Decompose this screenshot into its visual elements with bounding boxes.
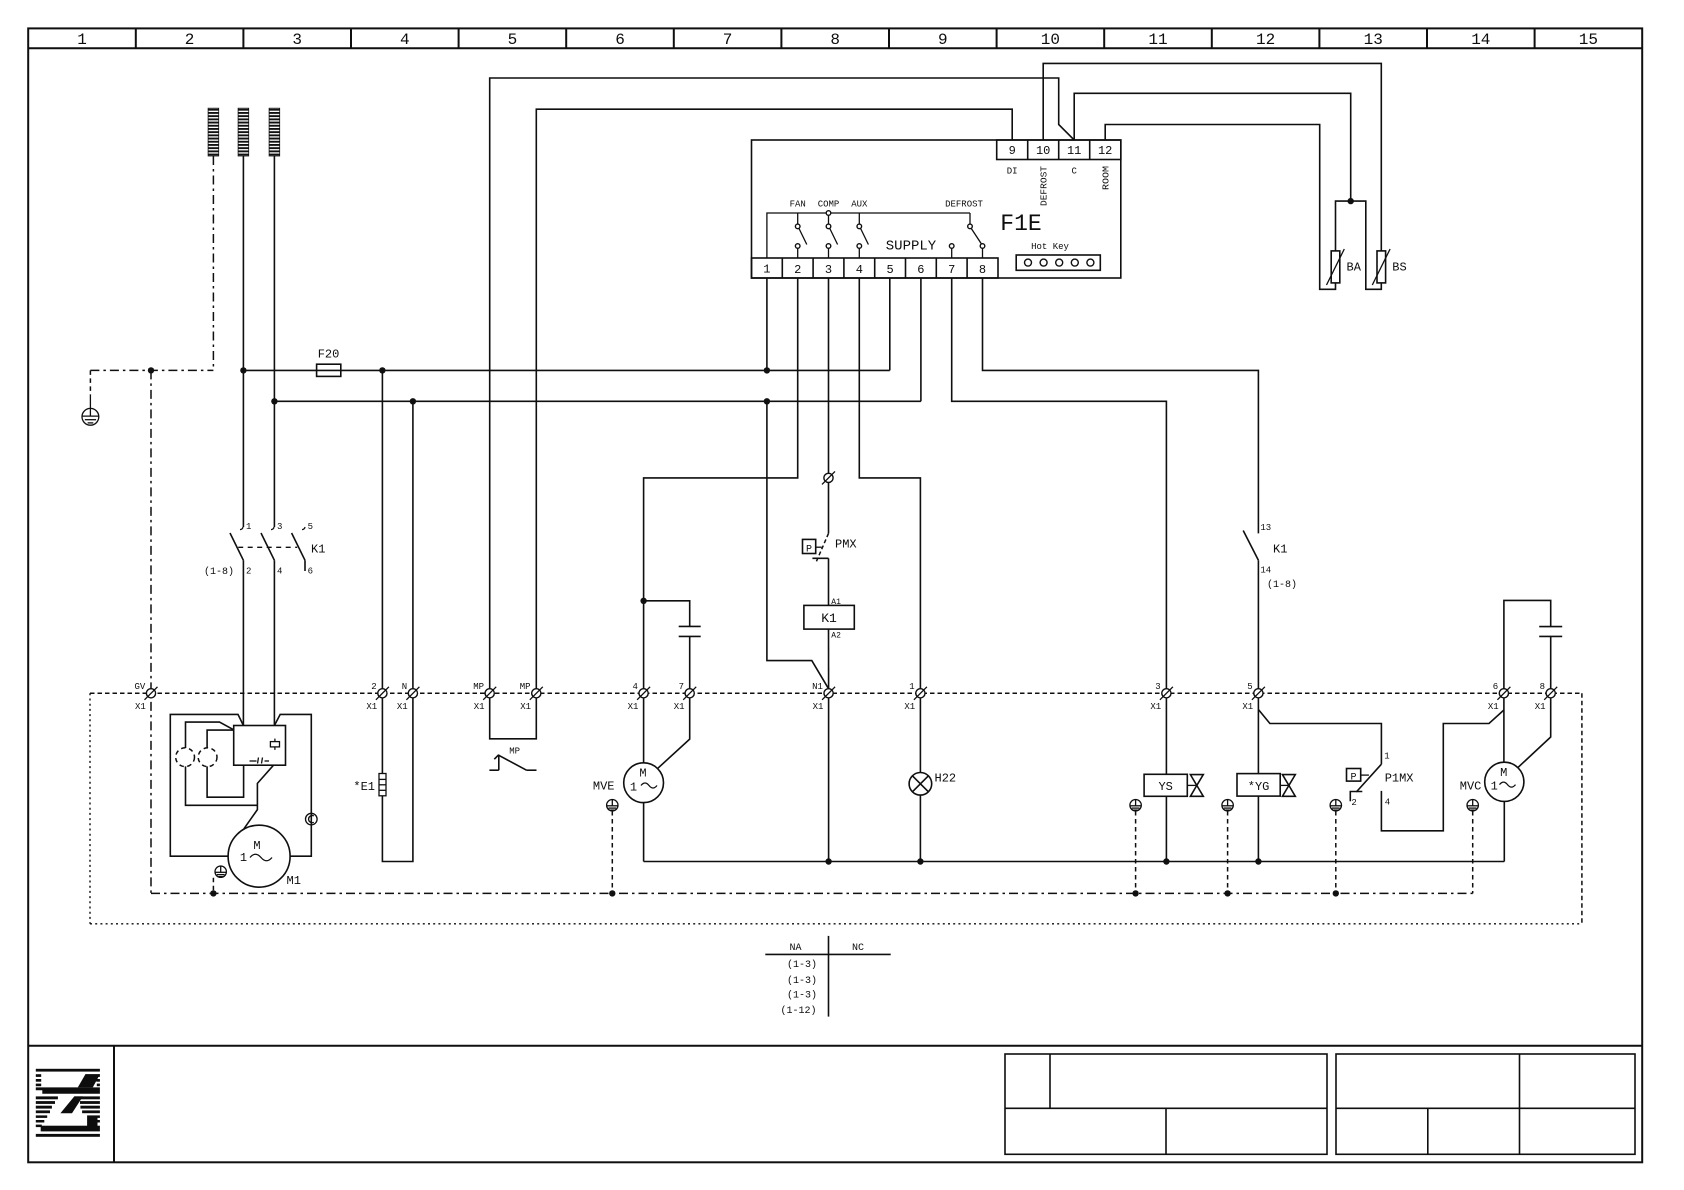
wire P1MX contact 4 to 6/X1 bbox=[1381, 710, 1504, 831]
svg-text:X1: X1 bbox=[135, 702, 146, 712]
svg-text:4: 4 bbox=[856, 263, 863, 277]
wire PE drop dash-dot bbox=[212, 156, 214, 370]
svg-text:NC: NC bbox=[852, 943, 864, 954]
wire capacitor to 8/X1 bbox=[1550, 636, 1552, 688]
svg-text:A1: A1 bbox=[831, 598, 841, 607]
svg-text:9: 9 bbox=[1009, 144, 1016, 158]
svg-text:1: 1 bbox=[1384, 752, 1389, 762]
wire YS ground dashed bbox=[1135, 811, 1137, 893]
thermal cutout MP loop below terminals bbox=[490, 698, 537, 739]
wire YS to return bbox=[1165, 796, 1167, 861]
wire terminal 10 DEFROST probe to BS top bbox=[1043, 63, 1381, 251]
motor MVE bbox=[593, 763, 664, 803]
svg-text:COMP: COMP bbox=[818, 200, 840, 210]
wire M1 ground dashed bbox=[212, 878, 214, 894]
svg-text:NA: NA bbox=[789, 943, 801, 954]
AUX relay switch bbox=[851, 200, 868, 259]
terminal line X1 dashed bbox=[90, 692, 1582, 694]
svg-text:X1: X1 bbox=[674, 702, 685, 712]
coil K1 bbox=[804, 598, 854, 641]
svg-text:X1: X1 bbox=[520, 702, 531, 712]
solenoid valve YG bbox=[1237, 774, 1295, 797]
svg-text:5: 5 bbox=[1247, 682, 1252, 692]
node L bus at L2 column bbox=[240, 367, 246, 373]
svg-text:H22: H22 bbox=[935, 772, 957, 786]
node L bus at terminal 1 bbox=[764, 367, 770, 373]
wire PE vertical to GV dash-dot bbox=[150, 370, 152, 893]
connector circle on PMX line bbox=[822, 471, 835, 484]
enclosure dotted bottom bbox=[90, 923, 1582, 925]
svg-text:X1: X1 bbox=[1488, 702, 1499, 712]
ground symbol P1MX bbox=[1330, 800, 1341, 811]
svg-text:M: M bbox=[253, 839, 260, 853]
svg-text:1: 1 bbox=[630, 781, 637, 795]
node MVE PE bbox=[609, 890, 615, 896]
svg-text:(1-8): (1-8) bbox=[1267, 579, 1297, 591]
right title table bbox=[1336, 1054, 1635, 1154]
svg-text:A2: A2 bbox=[831, 632, 841, 641]
ruler tick lines bbox=[136, 28, 1535, 48]
connector pin dashed circle right bbox=[198, 748, 217, 767]
svg-text:P: P bbox=[1350, 773, 1356, 784]
COMP relay switch bbox=[818, 200, 840, 259]
wire left pin to junction bbox=[186, 766, 258, 805]
wire right pin to relay bottom bbox=[207, 765, 244, 797]
svg-text:4: 4 bbox=[632, 682, 637, 692]
supply terminal bar L bbox=[238, 108, 249, 156]
svg-text:*E1: *E1 bbox=[353, 780, 375, 794]
svg-text:K1: K1 bbox=[1273, 543, 1287, 557]
svg-text:2: 2 bbox=[794, 263, 801, 277]
wire capacitor to 7/X1 bbox=[689, 636, 691, 688]
wire N bus bbox=[274, 400, 921, 402]
wire 6/X1 to MVC motor bbox=[1503, 698, 1505, 762]
ground symbol YG bbox=[1222, 800, 1233, 811]
terminal MP/X1 right bbox=[520, 682, 543, 712]
terminal 1/X1 bbox=[904, 682, 927, 712]
DEFROST relay switch bbox=[945, 200, 985, 259]
svg-text:2: 2 bbox=[185, 31, 195, 49]
wire YG to return bbox=[1257, 796, 1259, 861]
wire net C right branch to sensors junction bbox=[1074, 93, 1351, 201]
svg-text:4: 4 bbox=[277, 567, 282, 577]
wire 5/X1 to YG bbox=[1257, 698, 1259, 774]
wire terminal 4 AUX to 1/X1 bbox=[859, 278, 920, 689]
TOPWIRES bbox=[490, 63, 1407, 688]
svg-text:YS: YS bbox=[1158, 780, 1172, 794]
svg-text:10: 10 bbox=[1036, 144, 1050, 158]
node M1 PE bbox=[210, 890, 216, 896]
left title table bbox=[1005, 1054, 1327, 1154]
contactor K1 pole 5-6 unused bbox=[292, 522, 313, 577]
svg-text:12: 12 bbox=[1256, 31, 1275, 49]
wire terminal 5 to L bus bbox=[889, 278, 891, 370]
svg-text:7: 7 bbox=[948, 263, 955, 277]
node YG on return bbox=[1255, 858, 1261, 864]
svg-text:X1: X1 bbox=[474, 702, 485, 712]
svg-text:7: 7 bbox=[723, 31, 733, 49]
node L bus at E1 column bbox=[379, 367, 385, 373]
wire PE horizontal dash-dot bbox=[90, 369, 213, 371]
node P1MX PE bbox=[1333, 890, 1339, 896]
svg-text:3: 3 bbox=[277, 522, 282, 532]
supply terminal bar PE bbox=[208, 108, 219, 156]
wire 6/X1 up to capacitor bbox=[1504, 600, 1551, 688]
COMPRESSOR bbox=[170, 714, 317, 896]
terminal strip 9-12 bbox=[997, 140, 1121, 160]
terminal N1/X1 bbox=[812, 682, 835, 712]
wire K1 14 to 5/X1 bbox=[1257, 560, 1259, 689]
Hot Key connector box bbox=[1016, 255, 1100, 270]
svg-text:*YG: *YG bbox=[1248, 780, 1270, 794]
terminal 6/X1 bbox=[1488, 682, 1511, 712]
thermistor BA bbox=[1327, 249, 1362, 285]
svg-text:(1-12): (1-12) bbox=[780, 1005, 816, 1017]
CONTROLLER bbox=[752, 140, 1121, 278]
wire 8/X1 to MVC diagonal bbox=[1518, 698, 1551, 768]
svg-text:X1: X1 bbox=[813, 702, 824, 712]
svg-text:6: 6 bbox=[308, 567, 313, 577]
wire MVE bottom bbox=[643, 803, 645, 862]
svg-text:M: M bbox=[1500, 766, 1507, 780]
wire terminal 9 DI to MP column bbox=[536, 109, 1012, 689]
svg-text:GV: GV bbox=[134, 682, 145, 692]
ground symbol MVC bbox=[1467, 800, 1478, 811]
enclosure dotted left side bbox=[89, 693, 91, 924]
svg-text:(1-3): (1-3) bbox=[787, 989, 817, 1001]
svg-text:5: 5 bbox=[308, 522, 313, 532]
motor M1 bbox=[228, 825, 301, 888]
wire 1/X1 to H22 bbox=[919, 698, 921, 773]
terminal strip 1-8 bbox=[752, 258, 999, 278]
svg-text:13: 13 bbox=[1364, 31, 1383, 49]
XTERMS bbox=[90, 682, 1582, 924]
lamp H22 bbox=[909, 773, 932, 796]
controller F1E box bbox=[752, 140, 1121, 278]
thermal protector circle on right leg bbox=[306, 813, 318, 825]
PE bottom dash-dot line bbox=[151, 892, 1473, 894]
wire terminal 2 FAN to 4/X1 bbox=[644, 278, 798, 689]
wire PE to earth bbox=[89, 370, 91, 395]
supply terminal bar N bbox=[269, 108, 280, 156]
pressure switch P1MX bbox=[1347, 752, 1414, 808]
heater E1 bbox=[353, 698, 413, 862]
svg-text:BS: BS bbox=[1392, 261, 1406, 275]
wire N column from N bus to N/X1 bbox=[412, 401, 414, 689]
thermal cutout MP contact symbol bbox=[489, 755, 536, 771]
svg-text:N1: N1 bbox=[812, 682, 823, 692]
svg-text:P: P bbox=[806, 545, 812, 556]
wire N1/X1 to return bbox=[828, 698, 830, 862]
svg-text:X1: X1 bbox=[397, 702, 408, 712]
svg-text:6: 6 bbox=[1493, 682, 1498, 692]
svg-text:(1-3): (1-3) bbox=[787, 959, 817, 971]
svg-text:SUPPLY: SUPPLY bbox=[886, 239, 937, 255]
svg-text:8: 8 bbox=[830, 31, 840, 49]
svg-text:7: 7 bbox=[679, 682, 684, 692]
NA NC cross table bbox=[765, 936, 890, 1017]
solenoid valve YS bbox=[1144, 774, 1203, 796]
node N bus at L3 column bbox=[271, 398, 277, 404]
svg-text:C: C bbox=[1071, 167, 1077, 177]
fuse F20 bbox=[317, 348, 341, 377]
svg-text:15: 15 bbox=[1579, 31, 1598, 49]
svg-text:F20: F20 bbox=[318, 348, 340, 362]
RIGHT bbox=[1130, 523, 1562, 897]
contactor K1 pole 3-4 bbox=[261, 522, 282, 726]
ground earth symbol bbox=[82, 408, 99, 425]
svg-text:M: M bbox=[639, 767, 646, 781]
BUSES bbox=[240, 278, 1258, 689]
svg-text:MP: MP bbox=[520, 682, 531, 692]
svg-text:MVE: MVE bbox=[593, 780, 615, 794]
svg-text:8: 8 bbox=[1540, 682, 1545, 692]
svg-text:1: 1 bbox=[77, 31, 87, 49]
svg-text:X1: X1 bbox=[904, 702, 915, 712]
svg-text:AUX: AUX bbox=[851, 200, 868, 210]
linkage dashed K1 bbox=[238, 546, 297, 548]
svg-text:2: 2 bbox=[246, 567, 251, 577]
capacitor MVC bbox=[1539, 627, 1562, 637]
svg-text:P1MX: P1MX bbox=[1385, 772, 1414, 786]
ground symbol M1 bbox=[215, 866, 226, 877]
wire 7/X1 to MVE motor diagonal bbox=[658, 698, 690, 769]
svg-text:6: 6 bbox=[615, 31, 625, 49]
wire terminal 8 to K1 contact 13 bbox=[983, 278, 1259, 533]
enclosure dashed right side bbox=[1581, 693, 1583, 924]
node YG PE bbox=[1224, 890, 1230, 896]
svg-text:X1: X1 bbox=[1150, 702, 1161, 712]
wire PMX to K1 coil bbox=[828, 558, 830, 605]
svg-text:(1-8): (1-8) bbox=[204, 566, 234, 578]
node PE branch bbox=[148, 367, 154, 373]
MIDDLE bbox=[353, 471, 1504, 896]
svg-text:2: 2 bbox=[371, 682, 376, 692]
svg-text:14: 14 bbox=[1471, 31, 1490, 49]
wire run capacitor branch bbox=[644, 601, 690, 627]
wire MVC ground dashed bbox=[1472, 811, 1474, 893]
logo cell divider bbox=[113, 1046, 115, 1163]
wire bottom return bbox=[644, 861, 1505, 863]
svg-text:X1: X1 bbox=[1242, 702, 1253, 712]
ruler numbers bbox=[77, 31, 1598, 49]
terminal GV/X1 bbox=[134, 682, 157, 712]
wire 4/X1 to MVE motor bbox=[643, 698, 645, 763]
wire MVE ground dashed bbox=[611, 811, 613, 893]
terminal 2/X1 bbox=[366, 682, 389, 712]
svg-text:4: 4 bbox=[1385, 798, 1390, 808]
wire relay bottom to motor M1 bbox=[244, 765, 274, 829]
internal relay bus from terminal 1 bbox=[767, 213, 970, 258]
svg-text:K1: K1 bbox=[311, 543, 325, 557]
svg-text:DI: DI bbox=[1007, 167, 1018, 177]
svg-text:5: 5 bbox=[886, 263, 893, 277]
svg-text:PMX: PMX bbox=[835, 538, 857, 552]
wire MVC bottom to return bbox=[1503, 801, 1505, 861]
node YS on return bbox=[1163, 858, 1169, 864]
wire terminal 7 to terminal 3/X1 bbox=[952, 278, 1167, 689]
wire E1 column from L bus to 2/X1 bbox=[381, 370, 383, 688]
wire L bus bbox=[243, 369, 889, 371]
wire L2 from bar to K1 bbox=[242, 156, 244, 527]
terminal 3/X1 bbox=[1150, 682, 1173, 712]
svg-text:13: 13 bbox=[1260, 523, 1271, 533]
wire N bus to N1/X1 bbox=[767, 401, 829, 689]
svg-text:3: 3 bbox=[292, 31, 302, 49]
svg-text:10: 10 bbox=[1041, 31, 1060, 49]
FAN relay switch bbox=[790, 200, 807, 259]
svg-text:X1: X1 bbox=[1535, 702, 1546, 712]
svg-text:DEFROST: DEFROST bbox=[1040, 165, 1050, 206]
connector pin dashed circle left bbox=[176, 748, 195, 767]
motor MVC bbox=[1460, 762, 1524, 801]
svg-text:MVC: MVC bbox=[1460, 780, 1482, 794]
node MVE cap branch bbox=[640, 598, 646, 604]
svg-text:N: N bbox=[402, 682, 407, 692]
wire 5/X1 branch to P1MX contact 1 bbox=[1258, 710, 1381, 765]
svg-text:4: 4 bbox=[400, 31, 410, 49]
wire YG ground dashed bbox=[1227, 811, 1229, 893]
svg-text:3: 3 bbox=[825, 263, 832, 277]
svg-text:1: 1 bbox=[1491, 780, 1498, 794]
wire terminal 12 ROOM to BA bottom bbox=[1105, 125, 1335, 290]
compressor housing outer loop left bbox=[170, 714, 243, 856]
terminal MP/X1 left bbox=[473, 682, 496, 712]
svg-text:2: 2 bbox=[1351, 798, 1356, 808]
svg-text:MP: MP bbox=[509, 747, 520, 757]
terminal 4/X1 bbox=[628, 682, 651, 712]
svg-text:K1: K1 bbox=[821, 611, 837, 626]
svg-text:X1: X1 bbox=[628, 702, 639, 712]
PTC device in relay bbox=[270, 739, 279, 750]
svg-text:12: 12 bbox=[1098, 144, 1112, 158]
svg-text:X1: X1 bbox=[366, 702, 377, 712]
svg-text:1: 1 bbox=[763, 263, 770, 277]
node N bus at N column bbox=[410, 398, 416, 404]
svg-text:14: 14 bbox=[1260, 566, 1271, 576]
node H22 on return bbox=[917, 858, 923, 864]
ground symbol YS bbox=[1130, 800, 1141, 811]
start relay box bbox=[234, 726, 286, 766]
terminal 5/X1 bbox=[1242, 682, 1265, 712]
title band line bbox=[28, 1045, 1642, 1047]
svg-text:Hot Key: Hot Key bbox=[1031, 242, 1069, 252]
svg-text:M1: M1 bbox=[287, 874, 301, 888]
svg-text:DEFROST: DEFROST bbox=[945, 200, 983, 210]
svg-text:ROOM: ROOM bbox=[1102, 166, 1112, 190]
thermistor BS bbox=[1372, 249, 1406, 285]
contactor K1 aux contact 13-14 bbox=[1243, 523, 1297, 591]
overload klixon mark in relay bbox=[250, 758, 270, 764]
svg-text:6: 6 bbox=[917, 263, 924, 277]
terminal 7/X1 bbox=[674, 682, 697, 712]
wire P1MX ground dashed bbox=[1335, 811, 1337, 893]
wire H22 to return bbox=[919, 795, 921, 861]
wire relay to left connector pin bbox=[186, 722, 234, 748]
svg-text:5: 5 bbox=[508, 31, 518, 49]
svg-text:MP: MP bbox=[473, 682, 484, 692]
svg-text:1: 1 bbox=[246, 522, 251, 532]
wire relay to right connector pin bbox=[207, 730, 234, 748]
svg-text:11: 11 bbox=[1067, 144, 1081, 158]
svg-text:1: 1 bbox=[240, 851, 247, 865]
svg-text:1: 1 bbox=[909, 682, 914, 692]
capacitor MVE bbox=[679, 626, 701, 636]
wire terminal 1 to L bus bbox=[766, 278, 768, 370]
svg-text:11: 11 bbox=[1148, 31, 1167, 49]
node sensors junction bbox=[1348, 198, 1354, 204]
Zanussi logo bbox=[36, 1069, 100, 1137]
ruler strip bottom line bbox=[28, 47, 1642, 49]
node N1 on return bbox=[825, 858, 831, 864]
NANC bbox=[765, 936, 890, 1017]
wire junction to BA top and BS bottom bbox=[1336, 201, 1382, 289]
terminal 8/X1 bbox=[1535, 682, 1558, 712]
wire L3 from bar to K1 bbox=[273, 156, 275, 527]
svg-text:BA: BA bbox=[1347, 261, 1362, 275]
svg-text:F1E: F1E bbox=[1000, 211, 1041, 237]
pressure switch PMX bbox=[803, 483, 857, 563]
svg-text:3: 3 bbox=[1155, 682, 1160, 692]
terminal N/X1 bbox=[397, 682, 420, 712]
svg-text:9: 9 bbox=[938, 31, 948, 49]
wire K1 coil to N1/X1 bbox=[828, 629, 830, 689]
wire net C left branch to MP column bbox=[490, 78, 1074, 689]
svg-text:8: 8 bbox=[979, 263, 986, 277]
compressor housing outer loop right bbox=[274, 714, 311, 856]
wire terminal 3 to PMX bbox=[828, 278, 830, 473]
LEFTPOWER bbox=[82, 108, 325, 893]
svg-text:(1-3): (1-3) bbox=[787, 975, 817, 987]
node YS PE bbox=[1132, 890, 1138, 896]
svg-text:FAN: FAN bbox=[790, 200, 806, 210]
wire 3/X1 to YS bbox=[1165, 698, 1167, 775]
wire terminal 6 to N bus bbox=[920, 278, 922, 401]
ground symbol MVE bbox=[607, 800, 618, 811]
contactor K1 pole 1-2 bbox=[230, 522, 251, 726]
node N bus at terminal 1 lower bbox=[764, 398, 770, 404]
node circle on bus at COMP bbox=[826, 211, 831, 216]
TITLEBLOCK bbox=[28, 1046, 1642, 1163]
